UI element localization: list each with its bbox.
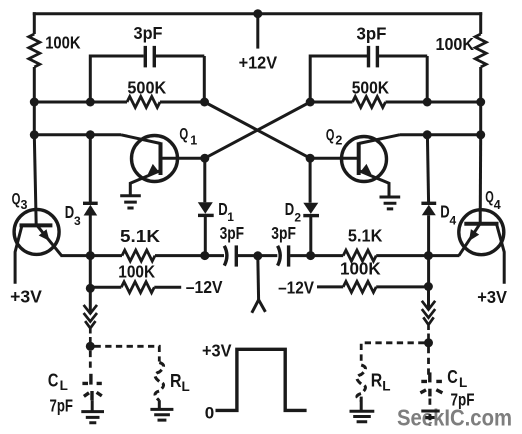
resistor 100K lower left — [90, 262, 181, 293]
svg-text:100K: 100K — [340, 258, 381, 278]
node right collector rail dots — [423, 130, 432, 139]
svg-text:1: 1 — [227, 210, 234, 224]
resistor 5.1K right — [311, 226, 460, 262]
resistor 500K left — [34, 77, 204, 107]
wire right vertical lower — [479, 67, 482, 135]
wire Q4 base — [479, 135, 483, 224]
node 5.1K-D4 junction right — [424, 251, 433, 260]
wire left base rail — [34, 133, 121, 136]
resistor 5.1K left — [61, 226, 205, 261]
wire left vertical upper — [33, 12, 36, 34]
transistor Q2 — [310, 127, 399, 197]
node +12V junction — [253, 9, 262, 18]
node output arrows right — [422, 288, 435, 343]
node load junction left — [86, 342, 95, 351]
resistor 500K right — [310, 77, 481, 107]
node Q3 emitter junction — [86, 251, 95, 260]
ground RL right — [350, 411, 375, 422]
resistor RL left (dashed) — [155, 363, 164, 401]
svg-text:Q: Q — [179, 126, 188, 143]
node trigger junction — [253, 251, 262, 260]
resistor RL right (dashed) — [357, 365, 366, 401]
svg-text:–12V: –12V — [186, 277, 223, 297]
wire cross-coupling left-top to Q2 base — [205, 102, 311, 158]
svg-text:5.1K: 5.1K — [348, 226, 383, 246]
transistor Q4 — [459, 189, 504, 284]
node output arrows left — [84, 288, 97, 346]
svg-text:R: R — [170, 371, 182, 391]
svg-text:3: 3 — [21, 198, 28, 212]
capacitor 3pF mid-right — [258, 223, 311, 267]
ground RL left — [150, 409, 173, 420]
svg-text:Q: Q — [485, 189, 494, 206]
svg-text:Q: Q — [326, 127, 335, 144]
capacitor CL right (dashed) — [420, 347, 442, 409]
svg-text:7pF: 7pF — [50, 396, 74, 416]
svg-text:C: C — [48, 370, 59, 390]
capacitor 3pF right top — [310, 24, 427, 103]
svg-text:D: D — [65, 202, 74, 222]
node D2-5.1K junction — [306, 251, 315, 260]
svg-text:4: 4 — [450, 214, 457, 228]
resistor 100K lower right — [317, 258, 428, 292]
svg-text:2: 2 — [335, 133, 342, 147]
svg-text:500K: 500K — [352, 77, 390, 97]
wire trigger input stub — [256, 256, 260, 300]
svg-text:3pF: 3pF — [220, 223, 245, 243]
svg-text:5.1K: 5.1K — [120, 226, 160, 246]
ground Q1 emitter — [120, 196, 141, 208]
wire cross-coupling right-top to Q1 collector — [205, 102, 310, 158]
capacitor 3pF mid-left — [205, 223, 258, 267]
svg-text:+3V: +3V — [10, 287, 42, 307]
svg-text:1: 1 — [190, 133, 197, 147]
diode D2 — [285, 158, 319, 255]
svg-text:R: R — [371, 371, 383, 391]
transistor Q1 — [121, 126, 205, 196]
ground Q2 emitter — [380, 197, 401, 209]
waveform square pulse — [216, 349, 307, 410]
node left 500K nodes — [30, 98, 39, 107]
resistor 100K left — [29, 34, 40, 67]
svg-text:3pF: 3pF — [357, 24, 387, 44]
wire right collector rail — [400, 133, 481, 136]
wire top rail — [33, 12, 482, 15]
node load junction right — [424, 338, 433, 347]
resistor 100K right — [475, 34, 486, 67]
node 5.1K-D1 junction — [200, 251, 209, 260]
svg-text:+3V: +3V — [477, 287, 507, 307]
svg-text:100K: 100K — [118, 262, 155, 282]
diode D1 — [198, 158, 235, 255]
wire Q3 base — [34, 135, 36, 226]
svg-text:100K: 100K — [436, 34, 475, 54]
node Q1 collector — [200, 154, 209, 163]
wire right vertical upper — [479, 12, 482, 34]
svg-text:7pF: 7pF — [451, 389, 475, 409]
wire +12V stub — [256, 14, 259, 49]
node left base rail dots — [30, 130, 39, 139]
svg-text:+12V: +12V — [239, 52, 278, 72]
node Q2 base — [306, 154, 315, 163]
svg-text:L: L — [182, 379, 190, 394]
svg-text:3: 3 — [74, 214, 81, 228]
svg-text:D: D — [440, 202, 449, 222]
wire dashed to RL right — [361, 343, 424, 365]
svg-text:C: C — [447, 367, 458, 387]
wire dashed to RL left — [95, 346, 160, 361]
node 100K right junction — [424, 282, 433, 291]
capacitor CL left (dashed) — [82, 351, 101, 411]
svg-text:100K: 100K — [45, 33, 81, 53]
svg-text:D: D — [285, 199, 294, 219]
ground CL right — [421, 411, 439, 418]
svg-text:+3V: +3V — [202, 341, 232, 361]
node trigger caret — [252, 300, 266, 313]
svg-text:L: L — [459, 375, 467, 390]
svg-text:Q: Q — [12, 191, 21, 208]
svg-text:500K: 500K — [127, 77, 166, 97]
svg-text:3pF: 3pF — [271, 223, 296, 243]
ground CL left — [81, 412, 104, 423]
svg-text:0: 0 — [205, 403, 214, 422]
svg-text:3pF: 3pF — [134, 23, 163, 43]
wire left vertical lower — [33, 67, 36, 135]
capacitor 3pF left top — [90, 23, 204, 102]
svg-text:L: L — [382, 378, 390, 393]
diode D3 — [65, 135, 98, 290]
node right 500K nodes — [306, 98, 315, 107]
svg-text:4: 4 — [494, 198, 501, 212]
svg-text:D: D — [218, 199, 227, 219]
diode D4 — [421, 135, 456, 288]
transistor Q3 — [12, 191, 62, 284]
svg-text:L: L — [60, 378, 68, 393]
node 100K left junction — [86, 284, 95, 293]
svg-text:–12V: –12V — [278, 278, 314, 298]
